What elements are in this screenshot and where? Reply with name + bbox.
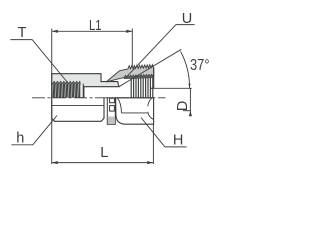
body section (top half, light gray) — [52, 74, 119, 98]
nut mouth bore line — [151, 87, 154, 89]
label T leader — [10, 40, 68, 83]
left thread bars — [53, 84, 81, 98]
dimension L — [152, 124, 154, 164]
svg-text:H: H — [173, 133, 183, 149]
svg-text:L1: L1 — [89, 18, 102, 34]
svg-text:U: U — [182, 11, 192, 27]
nut section (top half, darker gray) — [106, 65, 154, 82]
label U leader — [126, 25, 195, 78]
37 deg cone line — [119, 49, 182, 87]
arc arrowheads — [188, 84, 190, 89]
svg-text:h: h — [16, 131, 24, 147]
left thread shading base — [53, 84, 81, 98]
left thread teeth (NPT) — [53, 81, 81, 84]
dimension D — [151, 87, 192, 89]
nut right face — [153, 68, 155, 89]
svg-text:T: T — [18, 25, 27, 41]
interface piece with squares — [107, 98, 115, 125]
nut hex flat line — [122, 112, 148, 114]
thread runout face — [82, 84, 84, 98]
centerline — [32, 97, 166, 99]
nut thread teeth (top-half zigzag) — [124, 74, 154, 78]
label H leader — [141, 118, 187, 147]
svg-text:37°: 37° — [190, 57, 210, 74]
svg-text:D: D — [175, 101, 191, 111]
nut bottom half (outside view) — [116, 98, 154, 124]
nut chamfer arcs — [117, 98, 121, 113]
label h leader — [11, 116, 57, 145]
body hex flat line — [52, 105, 104, 107]
svg-text:L: L — [100, 145, 108, 161]
angle arc — [181, 51, 190, 88]
nut internal thread lines (vertical) — [131, 78, 153, 98]
dimension L1 — [51, 29, 53, 164]
body bottom half (outside view) — [52, 98, 104, 122]
